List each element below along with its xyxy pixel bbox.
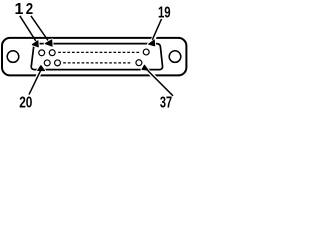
top row dashed continuation [58, 51, 140, 53]
svg-text:2: 2 [26, 1, 33, 18]
right mounting hole [169, 51, 181, 63]
connector shell [2, 38, 186, 76]
pin 37 [136, 60, 142, 66]
svg-text:37: 37 [160, 94, 172, 109]
pin 1 [39, 50, 45, 56]
svg-text:19: 19 [158, 4, 171, 21]
arrow from 20 to pin 20 [29, 66, 45, 95]
arrow from 19 to pin 19 [149, 19, 162, 46]
pin 2 [49, 50, 55, 56]
insert outline [31, 44, 162, 70]
arrow from 2 to pin 2 [31, 16, 52, 46]
bottom row dashed continuation [63, 62, 132, 64]
arrow from 1 to pin 1 [20, 16, 39, 47]
arrow from 37 to pin 37 [142, 65, 173, 96]
svg-text:1: 1 [15, 1, 24, 18]
pin 20 [44, 60, 50, 66]
pin 19 [143, 49, 149, 55]
svg-text:20: 20 [19, 95, 32, 109]
left mounting hole [7, 51, 19, 63]
pin 21 [55, 60, 61, 66]
